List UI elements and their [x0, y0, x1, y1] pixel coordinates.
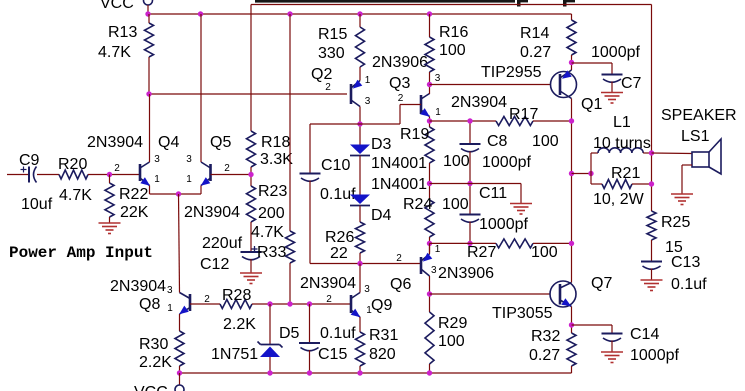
svg-text:1: 1 — [365, 75, 371, 86]
wire to speaker — [652, 152, 693, 155]
wire Q8 base — [190, 303, 220, 305]
transistor Q8 — [189, 294, 192, 311]
resistor R32 — [567, 333, 576, 366]
wire R13 bottom lead — [148, 57, 150, 94]
wire Q6 emitter lead — [429, 243, 431, 254]
ground C12 — [240, 272, 262, 274]
wire L1 left lead — [591, 152, 598, 154]
resistor R22 — [105, 183, 114, 217]
svg-text:R28: R28 — [222, 287, 251, 304]
svg-text:330: 330 — [318, 45, 345, 62]
junction C8 bottom — [467, 181, 472, 186]
wire C8-C11 — [469, 152, 471, 215]
resistor R20 — [59, 170, 88, 179]
svg-text:100: 100 — [531, 244, 558, 261]
junction Q6 emitter node — [427, 241, 432, 246]
ground C8 row — [510, 203, 532, 205]
wire R15 to Q2 emitter — [359, 67, 361, 81]
svg-text:SPEAKER: SPEAKER — [661, 107, 737, 124]
transistor Q7 — [550, 281, 576, 307]
junction output-L1 — [569, 171, 574, 176]
svg-text:R27: R27 — [467, 244, 496, 261]
wire R22 top lead — [109, 175, 111, 184]
resistor R15 — [356, 27, 365, 67]
wire R24 bottom lead — [429, 237, 431, 253]
svg-text:22: 22 — [330, 245, 348, 262]
svg-text:R19: R19 — [400, 126, 429, 143]
svg-text:R20: R20 — [58, 156, 87, 173]
svg-text:R18: R18 — [261, 134, 290, 151]
svg-text:C8: C8 — [487, 133, 508, 150]
wire output to L1 — [572, 173, 592, 175]
wire R20 to Q4 base — [88, 174, 140, 176]
wire R13 top lead — [148, 14, 150, 23]
svg-text:VCC: VCC — [100, 0, 134, 12]
capacitor C15 — [299, 342, 320, 344]
wire C9 to R20 — [37, 174, 59, 176]
wire R27 right lead — [533, 242, 572, 244]
capacitor C8 — [460, 143, 481, 145]
svg-text:1: 1 — [366, 305, 372, 316]
wire R16 top lead — [429, 14, 431, 37]
svg-text:Q1: Q1 — [581, 96, 602, 113]
svg-text:1N4001: 1N4001 — [371, 176, 427, 193]
svg-text:100: 100 — [443, 153, 470, 170]
resistor R29 — [425, 312, 434, 364]
wire C13 to ground — [651, 269, 653, 281]
ground C13 — [641, 279, 663, 281]
resistor R24 — [425, 200, 434, 237]
wire Q2 collector — [359, 107, 361, 145]
junction bias-Q9col — [357, 261, 362, 266]
svg-text:R23: R23 — [258, 183, 287, 200]
transistor Q5 — [209, 164, 212, 181]
wire Q9 collector — [359, 264, 361, 293]
junction C8 bottom row — [427, 181, 432, 186]
svg-text:0.1uf: 0.1uf — [671, 276, 707, 293]
svg-text:R25: R25 — [661, 214, 690, 231]
transistor Q9 — [350, 295, 353, 313]
speaker LS1 — [692, 152, 709, 167]
svg-text:R15: R15 — [318, 26, 347, 43]
svg-text:100: 100 — [439, 42, 466, 59]
wire R17 left lead — [430, 120, 497, 122]
diode D5 zener — [260, 347, 280, 358]
svg-text:2N3904: 2N3904 — [184, 204, 240, 221]
svg-text:R24: R24 — [403, 196, 432, 213]
junction C14 node — [569, 322, 574, 327]
wire Q3 emitter lead — [429, 117, 431, 128]
transistor Q3 — [420, 95, 423, 114]
junction rail-R15 — [357, 11, 362, 16]
wire Q1 collector — [571, 99, 573, 283]
svg-text:R13: R13 — [108, 24, 137, 41]
junction rail-R33 — [287, 11, 292, 16]
svg-text:C11: C11 — [479, 185, 507, 202]
svg-text:1: 1 — [435, 244, 441, 255]
svg-text:3: 3 — [435, 73, 441, 84]
junction C15 top — [307, 301, 312, 306]
ground input — [99, 222, 121, 224]
svg-text:C14: C14 — [630, 326, 659, 343]
resistor R16 — [425, 37, 434, 72]
svg-text:3.3K: 3.3K — [260, 151, 293, 168]
junction D5 top — [267, 301, 272, 306]
wire Q8 collector — [179, 194, 180, 293]
wire R17 right lead — [533, 120, 572, 122]
diode D3 — [350, 145, 370, 155]
svg-text:2: 2 — [204, 294, 210, 305]
wire D5 top lead — [269, 304, 271, 345]
svg-text:1: 1 — [154, 174, 160, 185]
wire Q3 base corner — [400, 104, 421, 106]
wire R30 bottom lead — [179, 366, 181, 373]
svg-text:1000pf: 1000pf — [591, 44, 640, 61]
svg-text:D3: D3 — [371, 136, 392, 153]
ground speaker — [671, 193, 693, 195]
wire C8 row to ground — [430, 183, 522, 185]
wire C14 to ground — [611, 341, 613, 353]
svg-text:3: 3 — [365, 96, 371, 107]
junction L1 branch — [588, 171, 593, 176]
resistor R19 — [425, 127, 434, 163]
capacitor C11 — [460, 214, 481, 216]
wire Q5 base — [211, 174, 252, 176]
wire VCC stem — [147, 5, 149, 14]
wire R19-R24 — [429, 163, 431, 200]
svg-text:2: 2 — [325, 82, 331, 93]
svg-text:820: 820 — [369, 346, 396, 363]
svg-text:Q2: Q2 — [311, 66, 332, 83]
transistor Q6 — [420, 257, 423, 274]
wire R18-R23 — [250, 167, 252, 186]
wire bootstrap drop — [250, 5, 252, 132]
svg-text:4.7K: 4.7K — [98, 44, 131, 61]
svg-text:D4: D4 — [371, 207, 392, 224]
svg-text:2.2K: 2.2K — [139, 354, 172, 371]
wire C7 row — [572, 62, 613, 64]
wire C15 top lead — [309, 304, 311, 343]
svg-text:3: 3 — [154, 154, 160, 165]
svg-text:2: 2 — [114, 163, 120, 174]
wire C14 row — [572, 324, 613, 326]
resistor R13 — [145, 23, 154, 57]
wire L1 branch vertical — [590, 153, 592, 184]
wire bias row y=124 — [310, 123, 400, 125]
junction R33 bottom — [287, 301, 292, 306]
svg-text:R14: R14 — [520, 25, 549, 42]
wire to Q1 base — [430, 84, 551, 86]
svg-text:TIP2955: TIP2955 — [481, 64, 542, 81]
svg-text:3: 3 — [167, 285, 173, 296]
svg-text:2N3904: 2N3904 — [87, 134, 143, 151]
capacitor C12 — [241, 251, 262, 253]
wire R27 left lead — [430, 242, 497, 244]
svg-text:Q8: Q8 — [139, 296, 160, 313]
wire C11 bottom lead — [469, 222, 471, 244]
svg-text:3: 3 — [186, 154, 192, 165]
resistor R21 — [602, 180, 632, 189]
svg-text:10uf: 10uf — [21, 196, 53, 213]
svg-text:Power Amp Input: Power Amp Input — [9, 244, 153, 262]
svg-text:R22: R22 — [119, 186, 148, 203]
resistor R28 — [220, 300, 252, 309]
wire Q5 emitter corner — [200, 186, 202, 195]
wire rail corner to R14 — [571, 14, 573, 20]
svg-text:L1: L1 — [613, 114, 631, 131]
resistor R25 — [647, 211, 656, 240]
capacitor C7 — [602, 74, 623, 76]
resistor R26 — [356, 222, 365, 253]
wire emitter join — [150, 193, 202, 195]
junction R21 right — [649, 181, 654, 186]
svg-text:C10: C10 — [321, 157, 350, 174]
junction rail-R30 — [177, 370, 182, 375]
junction C8 top — [467, 118, 472, 123]
capacitor C14 — [602, 333, 623, 335]
wire D3-D4 — [359, 156, 361, 195]
svg-text:LS1: LS1 — [681, 128, 710, 145]
svg-text:R16: R16 — [439, 24, 468, 41]
wire Q4 emitter corner — [149, 186, 151, 195]
svg-text:C13: C13 — [671, 254, 700, 271]
svg-text:Q3: Q3 — [389, 75, 410, 92]
diode D4 — [350, 195, 370, 205]
wire D4 to R26 — [359, 206, 361, 223]
svg-text:1: 1 — [167, 303, 173, 314]
wire Q5 collector — [200, 14, 202, 162]
svg-text:1000pf: 1000pf — [482, 154, 531, 171]
svg-text:Q7: Q7 — [591, 275, 612, 292]
transistor Q2 — [350, 84, 353, 104]
svg-text:1: 1 — [435, 107, 441, 118]
resistor R17 — [496, 117, 533, 126]
resistor R31 — [356, 332, 365, 366]
wire R32 bottom lead — [571, 366, 573, 373]
junction rail-Q5col — [198, 11, 203, 16]
svg-text:R33: R33 — [257, 244, 286, 261]
wire input lead — [7, 174, 29, 176]
wire R14 bottom lead — [571, 55, 573, 70]
svg-text:Q6: Q6 — [390, 276, 411, 293]
svg-text:1N751: 1N751 — [211, 346, 258, 363]
svg-text:100: 100 — [532, 133, 559, 150]
wire R21 right lead — [632, 183, 652, 185]
wire Q8 emitter corner — [179, 314, 181, 331]
inductor L1 — [598, 148, 643, 153]
svg-text:2.2K: 2.2K — [223, 316, 256, 333]
svg-text:1: 1 — [186, 174, 192, 185]
wire top title strip (clipped text) — [255, 0, 515, 3]
svg-text:100: 100 — [442, 196, 469, 213]
wire bias bottom row — [310, 263, 420, 265]
wire R23 to C12 — [250, 222, 252, 252]
svg-text:R26: R26 — [325, 229, 354, 246]
junction R17 left — [427, 118, 432, 123]
wire R21 left lead — [591, 183, 602, 185]
svg-text:2N3904: 2N3904 — [300, 275, 356, 292]
svg-text:C12: C12 — [200, 256, 229, 273]
wire R29 bottom lead — [429, 364, 431, 373]
junction Q7 base node — [427, 291, 432, 296]
junction rail-R31 — [357, 370, 362, 375]
junction rail-R29 — [427, 370, 432, 375]
ground C14 — [601, 351, 623, 353]
svg-text:2N3904: 2N3904 — [451, 94, 507, 111]
svg-text:C9: C9 — [19, 152, 40, 169]
svg-text:1000pf: 1000pf — [630, 347, 679, 364]
svg-text:2N3904: 2N3904 — [110, 278, 166, 295]
wire R15 top lead — [359, 14, 361, 27]
junction Q5 base node — [248, 172, 253, 177]
svg-text:200: 200 — [258, 205, 285, 222]
svg-text:2: 2 — [398, 93, 404, 104]
svg-text:Q9: Q9 — [371, 297, 392, 314]
wire L1 right lead — [643, 152, 651, 154]
svg-text:0.1uf: 0.1uf — [320, 325, 356, 342]
junction output-R27 — [569, 241, 574, 246]
svg-text:2: 2 — [224, 163, 230, 174]
svg-text:4.7K: 4.7K — [251, 224, 284, 241]
wire R25 bottom lead — [651, 240, 653, 262]
svg-text:2: 2 — [326, 294, 332, 305]
wire VCC rail y=14 — [148, 13, 572, 15]
svg-text:3: 3 — [431, 265, 437, 276]
junction Q2 collector row — [357, 121, 362, 126]
svg-text:220uf: 220uf — [202, 235, 243, 252]
capacitor C9 — [28, 167, 30, 183]
svg-text:VCC: VCC — [134, 384, 168, 391]
wire R28 to Q9 base — [252, 303, 351, 305]
junction Q1 base node — [427, 82, 432, 87]
transistor Q4 — [139, 164, 142, 181]
svg-text:1N4001: 1N4001 — [371, 155, 427, 172]
resistor R30 — [175, 331, 184, 366]
node VCC negative (bottom) — [179, 373, 181, 385]
svg-text:R29: R29 — [438, 315, 467, 332]
svg-text:Q5: Q5 — [210, 134, 231, 151]
wire C10 bottom lead — [309, 181, 311, 264]
resistor R27 — [496, 239, 533, 248]
wire R33 top — [289, 14, 291, 231]
wire R26 bottom — [359, 253, 361, 264]
wire Q6 collector lead — [429, 276, 431, 312]
wire C8 top lead — [469, 121, 471, 144]
junction emitters to Q8 — [176, 191, 181, 196]
svg-text:4.7K: 4.7K — [59, 187, 92, 204]
resistor R18 — [247, 131, 256, 167]
capacitor C10 — [300, 173, 321, 175]
svg-text:10 turns: 10 turns — [593, 135, 651, 152]
resistor R14 — [567, 20, 576, 55]
resistor R23 — [247, 186, 256, 222]
svg-text:C7: C7 — [621, 75, 642, 92]
wire R13 to Q2 base — [149, 93, 347, 95]
svg-text:2: 2 — [396, 253, 402, 264]
svg-text:C15: C15 — [318, 346, 347, 363]
junction rail-R13 — [145, 11, 150, 16]
svg-text:0.27: 0.27 — [529, 347, 560, 364]
wire D5 bottom lead — [269, 357, 271, 373]
transistor Q1 — [551, 72, 577, 98]
junction input-R22 — [107, 172, 112, 177]
wire C10 top lead — [309, 124, 311, 174]
wire C12 to ground — [250, 259, 252, 273]
svg-text:0.27: 0.27 — [520, 44, 551, 61]
junction R13 bottom — [146, 91, 151, 96]
wire R22 bottom lead — [109, 217, 111, 223]
svg-text:R21: R21 — [611, 165, 640, 182]
wire speaker to ground — [682, 164, 692, 166]
wire Q7 emitter lead — [571, 307, 573, 334]
junction rail-D5 — [267, 370, 272, 375]
wire Q9 emitter corner — [359, 317, 361, 332]
svg-text:2N3906: 2N3906 — [372, 54, 428, 71]
ground C7 — [601, 92, 623, 94]
wire bootstrap right drop — [651, 5, 653, 212]
svg-text:10, 2W: 10, 2W — [593, 191, 645, 208]
wire R33 bottom — [289, 263, 291, 304]
junction output-R17 — [569, 118, 574, 123]
svg-text:Q4: Q4 — [158, 134, 179, 151]
junction rail-R16 — [427, 11, 432, 16]
node VCC (top supply) — [144, 0, 153, 5]
junction rail-C15 — [307, 370, 312, 375]
wire R16 bottom lead — [429, 72, 431, 94]
wire Q4 collector — [149, 94, 151, 162]
svg-text:R30: R30 — [139, 336, 168, 353]
capacitor C13 — [641, 261, 662, 263]
svg-text:R31: R31 — [369, 327, 398, 344]
junction C11 bottom — [467, 241, 472, 246]
wire bottom rail y=373 — [180, 372, 572, 374]
junction R14-C7 node — [569, 60, 574, 65]
svg-text:1000pf: 1000pf — [479, 216, 528, 233]
wire bootstrap top y=4.5 — [251, 4, 652, 6]
junction speaker node — [649, 150, 654, 155]
wire to Q7 base — [430, 293, 551, 295]
svg-text:2N3906: 2N3906 — [438, 265, 494, 282]
svg-text:D5: D5 — [279, 325, 300, 342]
svg-text:3: 3 — [364, 284, 370, 295]
svg-text:R32: R32 — [531, 328, 560, 345]
svg-text:22K: 22K — [120, 204, 149, 221]
wire C7 to ground — [611, 82, 613, 93]
resistor R33 — [286, 231, 295, 263]
svg-text:100: 100 — [438, 333, 465, 350]
wire C15 bottom lead — [309, 350, 311, 373]
svg-text:TIP3055: TIP3055 — [492, 305, 553, 322]
wire R31 bottom lead — [359, 366, 361, 373]
